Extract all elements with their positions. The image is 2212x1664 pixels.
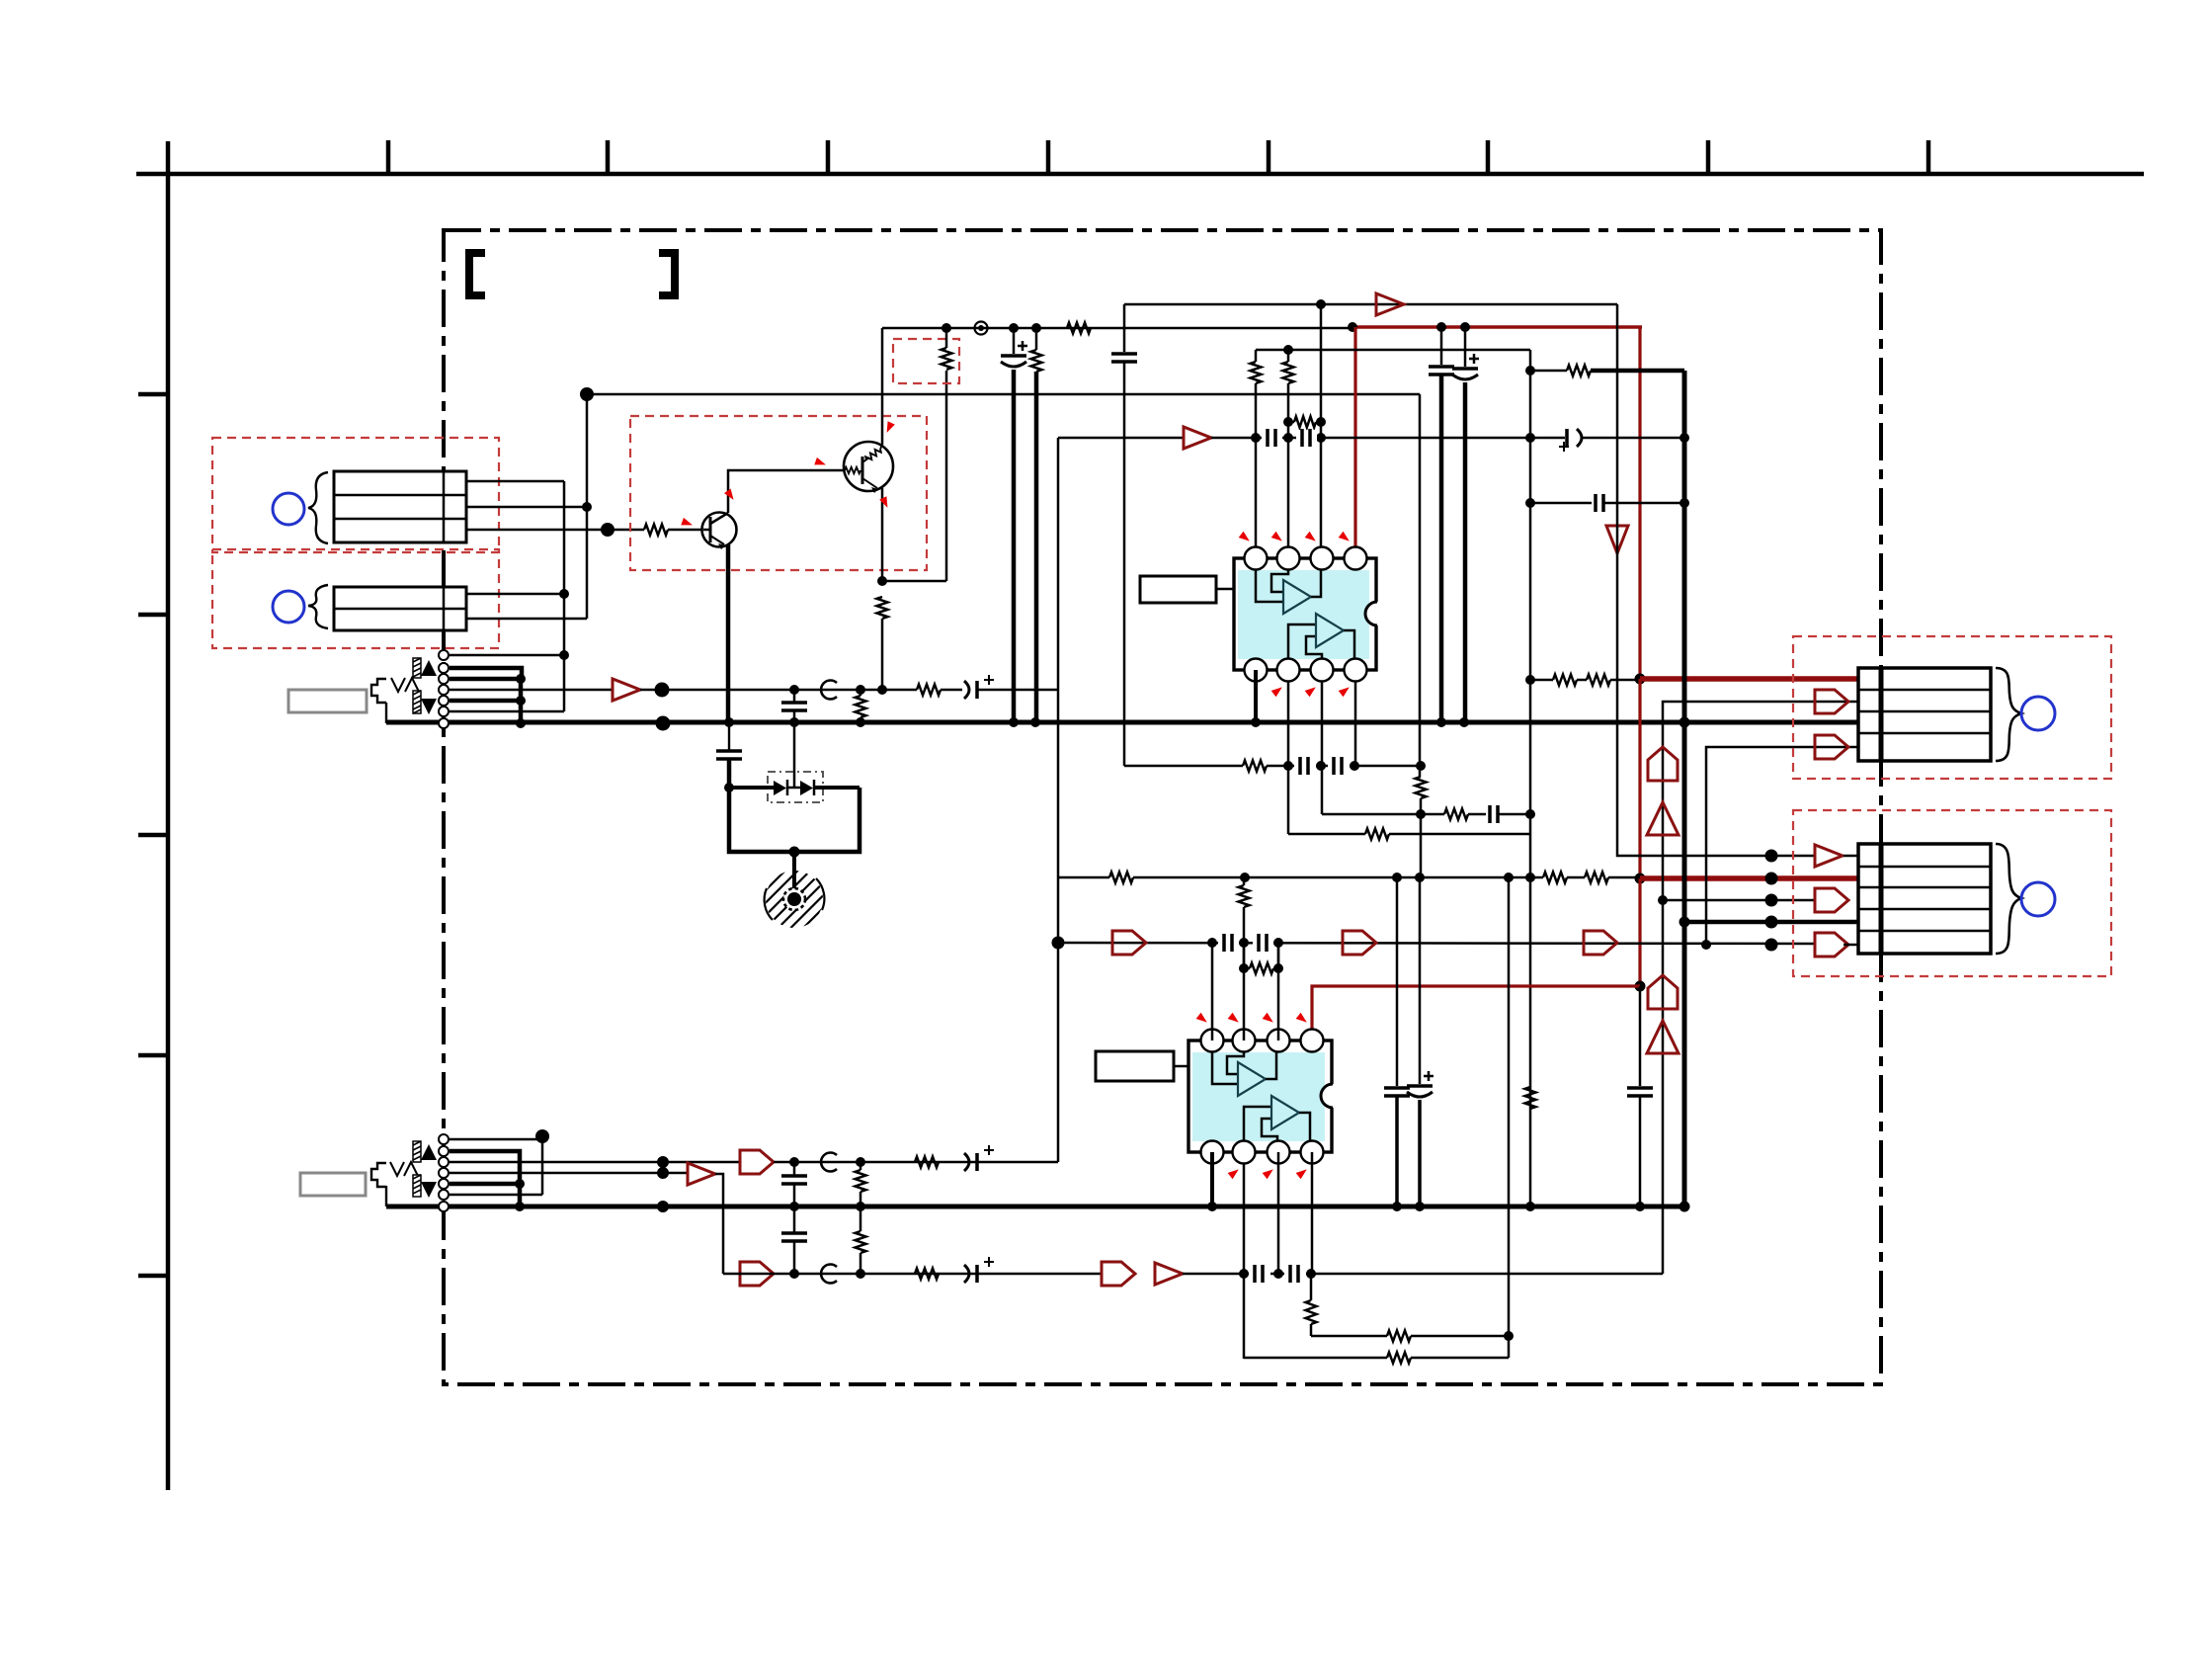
wire vertical x549 bbox=[541, 1136, 544, 1195]
diode D2 bbox=[800, 781, 813, 795]
junction dot elec cap top bbox=[1009, 323, 1019, 333]
wire IC1 pin8 down bbox=[1354, 681, 1357, 766]
junction dots row 443 bbox=[1251, 433, 1261, 443]
jack2 hatched contact bar upper bbox=[413, 1141, 421, 1162]
row 1374 bbox=[1244, 1357, 1387, 1360]
junction dot 804 row1289 bbox=[789, 1269, 799, 1279]
jack1 arrow-down contact bbox=[421, 699, 437, 714]
wire y=399 bbox=[587, 393, 1420, 396]
wire row1289 bbox=[723, 1273, 1102, 1276]
brace connector 2 bbox=[1996, 844, 2021, 954]
junction dot y308 x1337 bbox=[1316, 299, 1326, 309]
wire y443 triangle to caps bbox=[1211, 437, 1530, 440]
wire jack1 row4 (mic signal) bbox=[450, 689, 613, 692]
capacitor x1414 to bus bbox=[1396, 877, 1399, 1086]
IC1 red pin arrows bottom bbox=[1271, 684, 1352, 697]
IC2 pin circles top bbox=[1201, 1030, 1324, 1052]
title bracket left bbox=[469, 253, 485, 295]
wire row1289 right bbox=[1183, 1273, 1663, 1276]
resistor on power rail bbox=[1067, 323, 1091, 334]
row 1352 bbox=[1311, 1335, 1387, 1338]
pentagon row1176 bbox=[740, 1150, 774, 1174]
resistor power to bus bbox=[1031, 350, 1042, 372]
resistor pair row 888 right bbox=[1543, 873, 1567, 883]
wire vertical x571 head/jack select bbox=[563, 481, 566, 711]
resistor x1549 to bus bbox=[1525, 1087, 1536, 1109]
IC1 label box bbox=[1140, 576, 1216, 603]
pentagon marker up on x1683 bbox=[1648, 747, 1678, 781]
junction dot Q2 emitter node bbox=[877, 685, 887, 695]
blue circle connector 2 bbox=[2021, 882, 2055, 916]
wire head1 top to junction bbox=[466, 480, 564, 483]
inline connector C symbol mic row bbox=[821, 680, 837, 699]
resistor mic row to bus bbox=[856, 696, 866, 717]
brace head 2 bbox=[308, 585, 328, 628]
wire emitter node to bias vertical bbox=[882, 580, 946, 583]
resistor row1176 bbox=[915, 1157, 939, 1168]
electrolytic row1289 bbox=[964, 1265, 969, 1283]
junction dot x1483 on rail bbox=[1460, 322, 1470, 332]
wire head2 top stub bbox=[466, 593, 564, 596]
big dots column x1793 bbox=[1765, 850, 1778, 952]
junction dots row1289 bbox=[1239, 1269, 1249, 1279]
amplifier triangle row1289 bbox=[1155, 1263, 1183, 1285]
red wire corner down right side bbox=[1638, 327, 1641, 679]
wire y=308 top bbox=[1124, 303, 1617, 306]
junction dot big head1 bottom bbox=[601, 523, 614, 537]
pentagon row954 c bbox=[1584, 931, 1617, 955]
main ground bus y=731 bbox=[386, 720, 1858, 725]
title bracket right bbox=[659, 253, 675, 295]
thick wire to diodes left bbox=[729, 786, 774, 790]
pentagon marker up 2 on x1683 bbox=[1648, 975, 1678, 1009]
jack2 contact circles bbox=[439, 1134, 449, 1211]
resistor 871 bus-row1289 bbox=[856, 1231, 866, 1253]
pentagon conn1 row4 bbox=[1815, 735, 1848, 759]
capacitor x1660 to bus bbox=[1627, 1086, 1653, 1090]
brace head 1 bbox=[308, 472, 328, 543]
wire x1527 row888 to row1352 bbox=[1508, 877, 1511, 1336]
IC2 chip bbox=[1188, 1040, 1345, 1152]
triangle marker up on x1683 bbox=[1647, 802, 1679, 835]
inline connector C row1289 bbox=[821, 1264, 837, 1283]
wire vertical x1071 bbox=[1057, 438, 1060, 1162]
coupling caps row 954 bbox=[1218, 935, 1239, 951]
resistor row 980 bbox=[1250, 963, 1273, 974]
junction dot x1683 row911 bbox=[1658, 895, 1668, 905]
capacitor bus to diode loop bbox=[728, 722, 730, 751]
red dashed box connector 1 bbox=[1793, 636, 2111, 779]
amplifier triangle y308 bbox=[1376, 293, 1404, 315]
pentagon row954 a bbox=[1112, 931, 1146, 955]
amplifier triangle row 866 bbox=[1815, 845, 1843, 867]
wire vertical x1549 bbox=[1529, 350, 1532, 1206]
jack2 V-mark bbox=[390, 1162, 418, 1176]
frame left tick marks bbox=[138, 394, 168, 1276]
junction dots power verticals on bus bbox=[1009, 717, 1019, 727]
junction dot big ground node bbox=[656, 716, 671, 731]
thick loop around diodes bbox=[729, 788, 860, 852]
connector CN2 bbox=[1858, 844, 1991, 954]
row 844 bbox=[1288, 833, 1365, 836]
junction dot jack2 ground bbox=[657, 1201, 669, 1212]
wire IC1 pin3 up to y308 bbox=[1320, 304, 1323, 558]
IC2 red pin arrows top bbox=[1196, 1013, 1310, 1026]
wire jack2 row4 to triangle bbox=[450, 1172, 688, 1175]
IC2 red pin arrows bottom bbox=[1228, 1166, 1310, 1179]
jack2 hatched contact bar lower bbox=[413, 1175, 421, 1197]
blue circle connector 1 bbox=[2021, 697, 2055, 730]
resistor 871 row1176-bus bbox=[856, 1170, 866, 1192]
wire Q1 emitter thick to bus bbox=[726, 544, 731, 722]
junction dots x1459 x1483 on bus bbox=[1436, 717, 1446, 727]
junction dot 871 row1176 bbox=[856, 1157, 865, 1167]
black x1660 down to cap bbox=[1639, 986, 1642, 1086]
jack2 plug body bbox=[371, 1163, 386, 1187]
jack1 thick switch wire row2 bbox=[450, 668, 522, 679]
bottom ground bus y1221 bbox=[386, 1205, 1684, 1209]
electrolytic x1483 to bus bbox=[1464, 327, 1467, 367]
head 1 (record/play head) bbox=[334, 471, 466, 542]
wire vertical x594 bbox=[586, 394, 589, 619]
wire IC2 pin6 down bbox=[1243, 1163, 1246, 1359]
red wire y998 to IC2 pin4 bbox=[1312, 986, 1640, 1047]
junction dot x1727 row956 bbox=[1701, 940, 1711, 950]
row 509 capacitor to thick bus bbox=[1530, 502, 1592, 505]
junction dot big mic node bbox=[655, 683, 670, 698]
jack1 arrow-up contact bbox=[421, 660, 437, 676]
IC2 pin circles bottom bbox=[1201, 1141, 1324, 1164]
pentagon conn1 row2 bbox=[1815, 690, 1848, 713]
power rail y=332 bbox=[882, 327, 1352, 329]
resistor x1438 bbox=[1416, 777, 1427, 798]
jack1 gray label box bbox=[288, 690, 367, 712]
junction dot red x1660 y687 bbox=[1635, 674, 1646, 685]
wire head1 bottom to Q1 base node bbox=[466, 529, 644, 532]
resistor mic row bbox=[917, 685, 941, 696]
jack1 contact circles bbox=[439, 650, 449, 728]
resistor bias (in red box) bbox=[942, 348, 952, 370]
inline connector C row1176 bbox=[821, 1153, 837, 1172]
wire Q2 collector to power rail bbox=[881, 328, 884, 445]
wire triangle to corner down bbox=[715, 1174, 723, 1274]
amplifier triangle mic bbox=[613, 679, 640, 701]
wire row 888 bbox=[1058, 876, 1109, 879]
capacitor x1459 to bus bbox=[1440, 327, 1443, 365]
transistor Q2 (digital) bbox=[844, 442, 893, 493]
wire bus to diode mid bbox=[793, 722, 796, 788]
red dashed box transistor pair bbox=[630, 416, 927, 570]
small red dashed box bias resistor bbox=[893, 339, 959, 383]
triangle marker up 2 on x1683 bbox=[1647, 1021, 1679, 1053]
junction dot bias resistor top bbox=[942, 323, 951, 333]
jack1 V-mark bbox=[391, 678, 419, 692]
coupling capacitor pair row 443 bbox=[1262, 430, 1282, 446]
thick wire conn2 row4 from bus bbox=[1684, 920, 1858, 925]
blue circle terminal head 2 bbox=[273, 591, 304, 623]
junction dot y354 bbox=[1283, 345, 1293, 355]
wire x1637 from y308 to row866 bbox=[1617, 304, 1815, 856]
jack2 thick wire row2 bbox=[450, 1151, 520, 1206]
electrolytic x1437 to bus bbox=[1419, 877, 1422, 1084]
junction dot x1459 on rail bbox=[1436, 322, 1446, 332]
wire jack2 row1 bbox=[450, 1138, 542, 1141]
motor M1 bbox=[752, 857, 837, 942]
thick wire diodes right bbox=[814, 786, 860, 790]
junction dot Q2 emitter x893 bbox=[877, 576, 887, 586]
wire mic row 804-928 bbox=[794, 689, 917, 692]
thick line elec cap to bus bbox=[1012, 370, 1017, 722]
junction dots row 427 bbox=[1283, 417, 1293, 427]
junction dot row775 x1438 bbox=[1416, 761, 1426, 771]
frame left border line bbox=[166, 141, 171, 1490]
row 375 resistor to thick bus bbox=[1567, 366, 1591, 376]
capacitor mic row to bus bbox=[793, 690, 796, 703]
red wire x1660 889-998 bbox=[1638, 878, 1641, 986]
motor stem bbox=[792, 852, 796, 899]
wire Q1 collector up and to Q2 base bbox=[728, 470, 844, 513]
resistor IC1 pin2 pull bbox=[1283, 362, 1294, 383]
junction dot motor stem bbox=[789, 847, 800, 858]
junction dot 871 row1289 bbox=[856, 1269, 865, 1279]
wire y=443 to IC1 input bbox=[1058, 437, 1184, 440]
row 443 electrolytic to thick bus bbox=[1530, 437, 1565, 440]
electrolytic capacitor power rail bbox=[1013, 328, 1016, 354]
jack1 sleeve riser bbox=[385, 703, 387, 723]
thick line resistor to bus bbox=[1034, 372, 1039, 722]
wire row1176 bbox=[774, 1161, 1058, 1164]
junction dots x1549 bbox=[1525, 366, 1535, 375]
pentagon conn2 row5 bbox=[1815, 933, 1848, 957]
resistor row 427 bbox=[1294, 417, 1316, 428]
wire jack2 row6 bbox=[450, 1194, 542, 1197]
frame top border line bbox=[136, 172, 2144, 177]
IC2 label box bbox=[1096, 1051, 1174, 1081]
junction dot big y399 left bbox=[580, 387, 594, 401]
IC1 chip bbox=[1234, 558, 1389, 670]
connector CN1 bbox=[1858, 668, 1991, 761]
electrolytic capacitor mic row bbox=[941, 689, 962, 692]
junction dots on bus bbox=[724, 717, 734, 727]
thick red wire to connector2 pin2 bbox=[1640, 875, 1858, 881]
wire x1727 conn1row4 to row956 bbox=[1706, 747, 1858, 945]
jack2 thick wire row5 bbox=[450, 1182, 520, 1187]
junction dots row954 bbox=[1207, 938, 1217, 948]
pentagon row954 b bbox=[1343, 931, 1376, 955]
frame top tick marks bbox=[388, 140, 1928, 174]
blue circle terminal head 1 bbox=[273, 493, 304, 525]
wire jack1 row6 bbox=[450, 710, 564, 713]
pentagon conn2 row3 bbox=[1815, 888, 1848, 912]
pentagon row1289 b bbox=[1102, 1262, 1135, 1286]
capacitor x1138 to bus bbox=[1123, 304, 1126, 352]
IC1 pin circles bottom bbox=[1245, 659, 1367, 682]
wire head2 bottom stub bbox=[466, 618, 587, 621]
long signal row y954 bbox=[1058, 943, 1815, 944]
resistor Q2 emitter lower bbox=[877, 597, 888, 619]
resistor Q1 base bbox=[644, 525, 668, 536]
junction dots thick bus bbox=[1679, 717, 1690, 728]
thick bus vertical x1705 bbox=[1682, 371, 1687, 1206]
junction dot 804 row1176 bbox=[789, 1157, 799, 1167]
red down triangle marker bbox=[1606, 526, 1628, 553]
red dashed box connector 2 bbox=[1793, 810, 2111, 976]
IC1 pin circles top bbox=[1245, 547, 1367, 570]
junction dot 804 on mic row bbox=[789, 685, 799, 695]
wire conn2 row3 bbox=[1663, 899, 1815, 902]
wire IC1 pin5 to bus bbox=[1254, 670, 1258, 722]
red dashed box around head 2 bbox=[212, 549, 499, 648]
resistor row1289 bbox=[915, 1269, 939, 1280]
junction dot head1 mid bbox=[582, 502, 592, 512]
jack1 thick wire row3 bbox=[450, 677, 521, 682]
wire x1437 from y399 down bbox=[1419, 394, 1422, 777]
wire head1 middle to x594 bbox=[466, 506, 587, 509]
junction dot jack row1 on x571 bbox=[559, 650, 569, 660]
junction dot red 998 bbox=[1635, 981, 1646, 992]
junction dot big jack2 row1 bbox=[535, 1129, 549, 1143]
junction dots jack2 switch bbox=[515, 1179, 525, 1189]
junction dots rows3-4 bbox=[657, 1156, 669, 1168]
junction dot head2 top on x571 bbox=[559, 589, 569, 599]
test point circle on rail bbox=[975, 322, 988, 335]
amplifier triangle y443 bbox=[1184, 427, 1211, 449]
junction dot resistor top x1049 bbox=[1031, 323, 1041, 333]
jack2 gray label box bbox=[300, 1173, 366, 1196]
junction dots x1071 bbox=[1052, 937, 1065, 950]
wire jack1 row1 bbox=[450, 654, 564, 657]
resistor x1326 bbox=[1310, 1274, 1313, 1300]
wire IC2 pin8 down to row1289 bbox=[1311, 1152, 1314, 1274]
resistor IC1 pin1 pull bbox=[1251, 362, 1262, 383]
diode D1 bbox=[774, 781, 786, 795]
pentagon row1289 bbox=[740, 1262, 774, 1286]
coupling caps row 775 bbox=[1294, 758, 1316, 774]
wire triangle to node bbox=[640, 689, 794, 692]
jack1 hatched contact bar lower bbox=[413, 691, 421, 713]
jack1 hatched contact bar upper bbox=[413, 658, 421, 678]
transistor Q1 bbox=[702, 513, 737, 550]
wire mic row to x1071 bbox=[977, 689, 1058, 692]
red arrows transistor test points bbox=[681, 518, 694, 529]
wire jack2 row3 bbox=[450, 1161, 740, 1164]
row 775 feedback bbox=[1124, 765, 1243, 768]
resistor x1259 between rows bbox=[1239, 885, 1250, 907]
jack1 plug body bbox=[371, 679, 386, 703]
wires IC2 pins top bbox=[1211, 943, 1214, 1040]
row 824 bbox=[1322, 813, 1444, 816]
capacitor 804 bus-row1289 bbox=[793, 1206, 796, 1233]
jack2 arrow-up contact bbox=[421, 1144, 437, 1160]
junction dot 871 mic row bbox=[856, 685, 865, 695]
wire x1683 conn1row2 to rowC bbox=[1663, 702, 1858, 1274]
coupling caps row1289 bbox=[1249, 1266, 1270, 1282]
capacitor 804 row1176-bus bbox=[793, 1162, 796, 1176]
wire IC1 pin7 down bbox=[1321, 681, 1324, 814]
jack2 sleeve riser bbox=[385, 1186, 387, 1206]
electrolytic row1176 bbox=[964, 1153, 969, 1171]
wire y=354 resistor tops bbox=[1256, 349, 1530, 352]
red dashed box around head 1 bbox=[212, 438, 499, 552]
wire Q2 emitter down bbox=[881, 488, 884, 581]
brace connector 1 bbox=[1996, 668, 2021, 761]
thick red wire to connector1 pin1 bbox=[1640, 676, 1858, 682]
junction dot row824 x1438 bbox=[1416, 809, 1426, 819]
amplifier triangle row 1188 bbox=[688, 1163, 715, 1185]
wire IC1 pin6 down bbox=[1287, 681, 1290, 834]
junction dot red rail start bbox=[1348, 322, 1357, 332]
red wire x1660 687-889 bbox=[1638, 679, 1641, 878]
diode box dash-dot bbox=[768, 772, 823, 802]
jack2 arrow-down contact bbox=[421, 1182, 437, 1198]
jack1 thick wire row5 bbox=[450, 699, 521, 704]
IC1 red pin arrows top bbox=[1239, 532, 1352, 544]
head 2 (erase head) bbox=[334, 587, 466, 630]
wire IC2 pin5 thick to bus bbox=[1210, 1152, 1214, 1206]
junction dot red 889 bbox=[1635, 874, 1646, 884]
wire IC2 pin7 down to row1289 bbox=[1277, 1152, 1280, 1274]
jack1 thick switch wire rows 3-5-7 vertical bbox=[519, 679, 524, 724]
red wire down to IC1 pin4 bbox=[1353, 327, 1356, 558]
junction dots row 888 bbox=[1240, 873, 1250, 882]
red power wire rail to right bbox=[1352, 325, 1642, 328]
junction dots jack1 switch bbox=[516, 674, 526, 684]
row 688 double resistor to red node bbox=[1530, 679, 1553, 682]
wire resistor to Q1 base bbox=[668, 529, 703, 532]
main block dash-dot boundary box bbox=[444, 230, 1881, 1384]
